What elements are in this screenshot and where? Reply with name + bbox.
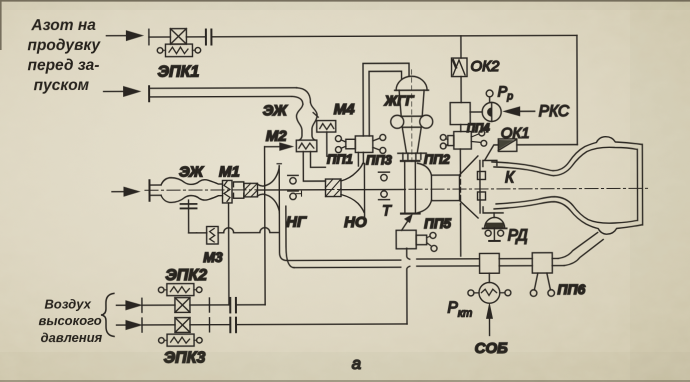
valve M1 xyxy=(222,180,232,203)
hatched fitting xyxy=(244,183,258,197)
chamber bottom wall inner xyxy=(496,196,637,223)
SOB arrow xyxy=(486,304,492,336)
svg-text:ЭЖ: ЭЖ xyxy=(263,102,288,119)
turbine body xyxy=(405,162,416,212)
svg-text:Т: Т xyxy=(382,203,392,219)
vent symbols near NG xyxy=(288,175,302,199)
oxidizer pipe double line xyxy=(150,88,310,105)
valve PP2 xyxy=(440,132,471,150)
line OK2 to control box xyxy=(460,77,462,103)
OK1 to chamber head xyxy=(485,145,499,160)
feed staples to gas generator xyxy=(363,63,409,136)
ejector EZh (vertical) body xyxy=(296,102,317,140)
valve box on fuel line (SOB) xyxy=(480,253,500,273)
fuel pipe horizontal xyxy=(287,258,564,267)
svg-text:ПП3: ПП3 xyxy=(366,152,393,167)
damper M4 box xyxy=(313,113,336,133)
air supply text xyxy=(38,296,102,345)
air line 1 xyxy=(116,298,265,313)
turbine inlet flange xyxy=(401,160,419,162)
valve box on fuel line (PP6) xyxy=(532,253,552,273)
sensor PP6 legs xyxy=(530,273,554,296)
svg-text:НГ: НГ xyxy=(286,214,307,231)
NG discharge pipe down xyxy=(279,206,294,267)
riser to M1 xyxy=(228,203,230,305)
air line 2 xyxy=(116,317,407,333)
svg-text:М4: М4 xyxy=(334,101,356,118)
svg-text:К: К xyxy=(505,169,515,186)
check valve OK1 xyxy=(498,139,517,152)
svg-text:М3: М3 xyxy=(203,249,223,265)
pipe bend up to nozzle manifold xyxy=(558,233,603,266)
pump NO inlet valve (hatched) xyxy=(325,179,341,197)
valve EPK2 xyxy=(175,298,190,313)
riser to PP5 from EPK3 xyxy=(407,248,410,324)
svg-text:ПП1: ПП1 xyxy=(327,151,353,166)
line PP2 down to fuel pipe xyxy=(459,149,461,256)
damper M2 box with zigzag xyxy=(296,140,317,152)
gas generator ZhGG xyxy=(391,70,433,162)
svg-text:пуском: пуском xyxy=(34,77,90,94)
svg-text:НО: НО xyxy=(344,214,367,231)
riser to M2 xyxy=(264,147,267,305)
svg-text:ПП6: ПП6 xyxy=(557,281,585,297)
frame right vertical xyxy=(576,35,578,144)
sensor Pkt xyxy=(468,273,511,303)
check valve OK2 xyxy=(451,58,467,77)
valve EPK3 xyxy=(175,318,190,333)
nitrogen line to right xyxy=(211,35,576,36)
svg-text:Воздух: Воздух xyxy=(44,296,91,311)
svg-text:Азот на: Азот на xyxy=(30,17,96,34)
sensor PP4 xyxy=(471,130,486,146)
flange bar xyxy=(148,86,150,101)
svg-text:ПП2: ПП2 xyxy=(424,152,451,167)
frame vertical to OK2 xyxy=(460,36,462,58)
svg-text:ПП4: ПП4 xyxy=(467,123,491,135)
ejector EZh horizontal xyxy=(150,177,222,202)
svg-text:ЭПК2: ЭПК2 xyxy=(165,267,207,284)
svg-text:РД: РД xyxy=(508,227,528,244)
link to PP2 xyxy=(460,125,462,132)
pressure regulator RKS xyxy=(470,90,501,122)
svg-text:М2: М2 xyxy=(266,128,288,145)
svg-text:ПП5: ПП5 xyxy=(424,216,451,231)
M4 drain line xyxy=(327,132,348,156)
RKS pointer arrow xyxy=(504,107,535,116)
valve PP5 xyxy=(396,230,437,251)
throttle valve RD xyxy=(483,213,507,241)
svg-text:ОК1: ОК1 xyxy=(501,125,530,142)
exhaust diffuser to chamber head xyxy=(459,156,478,218)
EZh drain with flanges xyxy=(181,200,197,233)
svg-text:давления: давления xyxy=(41,330,103,345)
pump NO volute xyxy=(341,163,365,216)
valve PP1 connector xyxy=(335,136,355,153)
vent symbols near turbine xyxy=(378,172,389,200)
svg-text:ЭПК1: ЭПК1 xyxy=(158,64,200,81)
valve EPK1 xyxy=(170,29,186,45)
paper shading overlays xyxy=(0,352,690,382)
drain line with hops xyxy=(189,228,279,233)
wire valve to coupling xyxy=(186,36,204,38)
control box xyxy=(450,103,470,125)
chamber bottom wall outer xyxy=(494,201,642,234)
riser NO to PP3 xyxy=(358,152,363,166)
pump shaft solid xyxy=(257,188,404,191)
pump NG volute xyxy=(257,164,281,213)
valve M3 xyxy=(197,226,224,244)
M2 actuation arrow xyxy=(265,143,293,150)
coupling bracket after M1 xyxy=(233,182,243,198)
wire to EPK1 xyxy=(149,36,170,38)
svg-text:высокого: высокого xyxy=(38,313,101,328)
svg-text:продувку: продувку xyxy=(27,37,101,54)
svg-text:ОК2: ОК2 xyxy=(470,58,500,75)
solenoid of EPK2 xyxy=(158,284,202,296)
solenoid of EPK1 xyxy=(157,44,200,57)
solenoid of EPK3 xyxy=(159,334,203,346)
valve PP3 box xyxy=(355,134,386,153)
injector head xyxy=(477,160,503,213)
axis centerline xyxy=(145,188,651,190)
flange bar xyxy=(148,180,150,200)
frame bottom line xyxy=(517,144,577,146)
chamber top wall inner xyxy=(494,147,637,176)
inlet arrow nitrogen xyxy=(106,31,142,41)
svg-text:ЭЖ: ЭЖ xyxy=(179,164,204,181)
svg-text:перед за-: перед за- xyxy=(27,57,99,74)
nitrogen caption text xyxy=(27,17,101,94)
flange tick xyxy=(148,29,150,44)
pipe below M2 to NO inlet duct xyxy=(303,152,325,182)
svg-text:ЖГГ: ЖГГ xyxy=(384,93,415,108)
turbine bottom flange xyxy=(401,212,419,214)
nozzle exit xyxy=(637,144,642,225)
coupling (two bars) xyxy=(206,30,212,45)
svg-text:РКС: РКС xyxy=(539,103,570,120)
inlet arrow fuel xyxy=(112,187,139,196)
chamber top wall outer xyxy=(492,137,642,171)
inlet arrow oxidizer xyxy=(104,87,140,97)
brace xyxy=(101,293,114,336)
svg-text:М1: М1 xyxy=(219,163,240,180)
turbine exhaust collector xyxy=(417,163,459,213)
PP5 arrow to turbine xyxy=(402,215,413,231)
